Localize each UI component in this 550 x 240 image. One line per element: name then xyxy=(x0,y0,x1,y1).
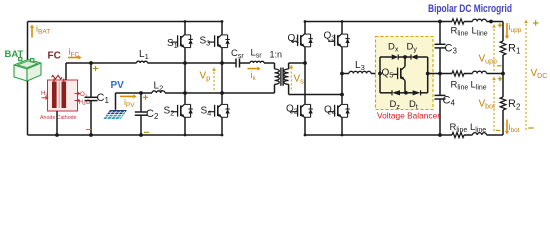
wire PV riser xyxy=(115,93,117,110)
svg-text:Vupp: Vupp xyxy=(479,54,497,66)
wire S3 collector to top bus xyxy=(221,22,223,35)
junction C3 top node xyxy=(438,20,442,24)
junction C3/C4 mid node xyxy=(438,72,442,76)
svg-text:C2: C2 xyxy=(146,108,159,121)
transistor S4 (IGBT) xyxy=(218,104,222,108)
svg-text:ibot: ibot xyxy=(509,122,520,134)
wire load branch vertical xyxy=(502,22,504,42)
transistor S1 (IGBT) xyxy=(181,34,185,38)
solar panel PV icon xyxy=(102,110,127,120)
svg-text:iBAT: iBAT xyxy=(36,24,50,36)
wire S1 collector to top bus xyxy=(184,22,186,35)
svg-text:L2: L2 xyxy=(154,80,164,92)
diode Dz xyxy=(392,90,400,95)
label minus Vupp xyxy=(497,65,502,67)
label plus C2 xyxy=(143,96,148,98)
wire top DC bus left (battery + rail) xyxy=(28,21,223,23)
capacitor C2 xyxy=(140,93,142,112)
arrow iBAT (battery current) xyxy=(31,28,33,38)
svg-text:Rline: Rline xyxy=(450,122,468,134)
svg-text:S1: S1 xyxy=(167,38,178,50)
svg-text:Lline: Lline xyxy=(471,80,487,92)
svg-text:Csr: Csr xyxy=(231,48,244,60)
junction Q leg2 secondary-bottom node xyxy=(340,93,344,97)
svg-text:iupp: iupp xyxy=(509,22,522,34)
svg-text:S4: S4 xyxy=(201,106,212,118)
svg-text:S2: S2 xyxy=(164,106,175,118)
junction S1 leg at PV row xyxy=(183,91,187,95)
wire secondary bottom to Q leg2 xyxy=(289,94,342,96)
svg-text:Vs: Vs xyxy=(294,74,305,86)
svg-text:1:n: 1:n xyxy=(270,50,283,60)
wire bottom DC bus right (rectifier - rail) xyxy=(305,134,452,136)
wire FC output row xyxy=(66,62,137,64)
svg-text:Anode: Anode xyxy=(40,115,55,121)
arrow ik (tank current) xyxy=(248,68,258,70)
svg-text:Cathode: Cathode xyxy=(57,115,77,121)
svg-text:R2: R2 xyxy=(508,98,521,111)
arrow Vbot xyxy=(493,80,495,131)
svg-text:Vp: Vp xyxy=(200,71,211,83)
battery BAT icon xyxy=(14,58,41,82)
wire mid rail (neutral) xyxy=(428,73,452,75)
resistor R2 xyxy=(500,97,506,110)
inductor Lline (bottom line) xyxy=(473,133,487,135)
wire L3 to balancer xyxy=(371,73,380,75)
wire secondary top to Q leg1 xyxy=(289,62,305,64)
junction balancer top center xyxy=(403,55,407,59)
wire S3 emitter to mid node xyxy=(221,48,223,63)
wire Q4 collector lead xyxy=(341,95,343,104)
wire S2 emitter to bottom bus xyxy=(184,118,186,135)
svg-text:S3: S3 xyxy=(200,36,211,48)
svg-text:L3: L3 xyxy=(355,60,365,72)
wire battery negative to bottom bus xyxy=(27,81,29,135)
diode Dy xyxy=(411,54,418,59)
transistor Q2 (IGBT) xyxy=(301,104,305,108)
svg-text:C4: C4 xyxy=(443,95,456,108)
junction S3 leg at FC row xyxy=(220,61,224,65)
svg-text:R1: R1 xyxy=(508,43,521,56)
wire balancer bottom row xyxy=(380,92,392,94)
svg-text:C1: C1 xyxy=(97,92,110,105)
fuel cell FC icon xyxy=(42,75,81,111)
svg-text:Q3: Q3 xyxy=(324,31,336,43)
wire S2 collector lead xyxy=(184,93,186,104)
svg-text:C3: C3 xyxy=(445,43,458,56)
transformer secondary winding xyxy=(288,63,290,69)
arrow VDC xyxy=(525,23,527,130)
junction node PV / C2 xyxy=(139,91,143,95)
wire Q1 emitter to mid node xyxy=(304,47,306,63)
arrow iupp xyxy=(506,23,508,36)
resistor Rline (mid line) xyxy=(452,71,464,76)
svg-text:L1: L1 xyxy=(139,49,149,61)
resistor Rline (bottom line) xyxy=(452,132,464,137)
wire Q leg1 mid segment xyxy=(304,63,306,104)
wire Q1 collector to top bus xyxy=(304,22,306,34)
arrow iFC xyxy=(68,57,78,59)
wire balancer right post xyxy=(427,57,429,93)
wire balancer left post xyxy=(379,57,381,93)
resistor R1 xyxy=(500,41,506,55)
wire S3 leg mid segment xyxy=(221,63,223,93)
svg-text:iFC: iFC xyxy=(69,47,80,59)
junction load mid node xyxy=(501,72,505,76)
junction balancer bottom center xyxy=(404,91,408,95)
junction Vupp tap xyxy=(489,20,493,24)
diode Dx xyxy=(392,54,399,59)
wire top DC bus right (rectifier + rail) xyxy=(305,21,452,23)
voltage balancer enclosure xyxy=(376,37,434,110)
transistor S3 (IGBT) xyxy=(218,34,222,38)
label plus Vupp xyxy=(498,24,503,26)
svg-text:Lsr: Lsr xyxy=(251,48,263,60)
label minus Vbot xyxy=(496,129,501,131)
wire balancer top row xyxy=(380,56,392,58)
label minus C2 xyxy=(144,131,149,133)
transformer T 1:n primary winding xyxy=(274,63,276,69)
svg-text:Voltage Balancer: Voltage Balancer xyxy=(377,112,440,121)
wire S1 leg mid segment xyxy=(184,63,186,93)
label minus VDC xyxy=(528,127,534,129)
resistor Rline (top line) xyxy=(452,19,464,24)
arrow ibot xyxy=(506,120,508,132)
junction S3 leg at PV row xyxy=(220,91,224,95)
svg-text:VDC: VDC xyxy=(531,68,548,80)
capacitor C4 xyxy=(439,74,441,96)
arrow iPV xyxy=(120,95,133,97)
svg-text:Lline: Lline xyxy=(470,122,486,134)
svg-text:Rline: Rline xyxy=(451,26,469,38)
transformer core xyxy=(280,68,282,86)
capacitor C3 xyxy=(439,22,441,45)
svg-text:ik: ik xyxy=(251,70,257,82)
inductor Lsr xyxy=(250,61,264,63)
arrow Vp (primary voltage) xyxy=(213,71,215,90)
arrow Vupp xyxy=(493,28,495,71)
label minus C1 xyxy=(86,129,91,131)
junction C4 bottom node xyxy=(438,133,442,137)
svg-text:iPV: iPV xyxy=(124,97,135,109)
svg-text:Lline: Lline xyxy=(472,26,488,38)
transistor Q4 (IGBT) xyxy=(338,104,342,108)
junction Q leg2 at mid rail (L3 tap) xyxy=(340,72,344,76)
wire bottom DC bus left (battery - rail) xyxy=(28,134,223,136)
wire Q4 emitter to bottom bus xyxy=(341,118,343,135)
svg-text:Vbot: Vbot xyxy=(479,99,495,111)
wire FC anode to bottom bus xyxy=(56,111,58,135)
inductor Lline (top line) xyxy=(473,19,487,21)
svg-text:FC: FC xyxy=(48,51,61,62)
junction Q leg1 secondary-top node xyxy=(303,61,307,65)
svg-text:Rline: Rline xyxy=(451,80,469,92)
inductor L1 xyxy=(137,61,148,63)
transistor S2 (IGBT) xyxy=(181,104,185,108)
wire S4 emitter to bottom bus xyxy=(221,118,223,135)
transistor Q3 (IGBT) xyxy=(338,34,342,38)
wire Q leg2 to L3 xyxy=(342,73,349,75)
wire PV row (W2) xyxy=(116,92,153,94)
svg-text:PV: PV xyxy=(111,80,125,91)
inductor L3 xyxy=(349,71,371,73)
diode Dt xyxy=(413,90,421,95)
svg-text:Bipolar DC Microgrid: Bipolar DC Microgrid xyxy=(428,3,512,15)
junction S1 leg at FC row xyxy=(183,61,187,65)
transistor Q5 (IGBT) xyxy=(404,57,406,67)
svg-text:BAT: BAT xyxy=(5,49,24,60)
wire Q2 emitter to bottom bus xyxy=(304,118,306,135)
label plus VDC xyxy=(533,22,539,24)
wire battery positive to top bus xyxy=(27,22,29,60)
transistor Q1 (IGBT) xyxy=(301,34,305,38)
wire S1 emitter to mid node xyxy=(184,48,186,63)
capacitor Csr xyxy=(235,59,237,68)
inductor L2 xyxy=(152,91,165,93)
wire S4 collector lead xyxy=(221,93,223,104)
label plus C1 xyxy=(93,68,98,70)
junction node FC / C1 xyxy=(89,61,93,65)
capacitor C1 xyxy=(90,63,92,97)
svg-text:Q2: Q2 xyxy=(286,104,298,116)
wire Q3 emitter to mid segment xyxy=(341,47,343,94)
inductor Lline (mid line) xyxy=(473,71,487,73)
label plus Vbot xyxy=(498,78,503,80)
wire FC cathode to node (vertical lead) xyxy=(65,63,67,80)
arrow Vs (secondary voltage) xyxy=(290,68,292,89)
wire Q3 collector to top bus xyxy=(341,22,343,34)
